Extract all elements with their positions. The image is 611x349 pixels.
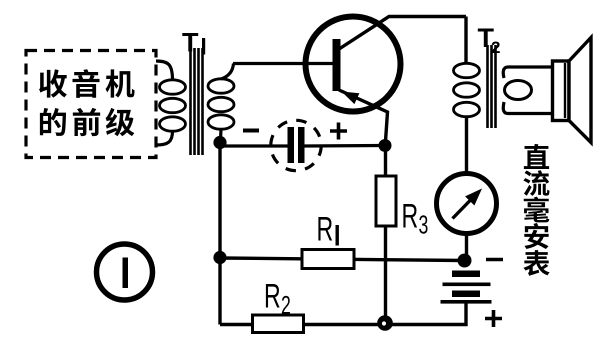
wire battery to bottom rail (385, 304, 466, 325)
transformer T1 primary coil (160, 80, 186, 131)
capacitor C1 wire right (305, 144, 386, 148)
battery B1 plates (452, 271, 480, 278)
wire box to T1 primary top (156, 61, 173, 80)
capacitor polarity minus (243, 129, 259, 133)
transformer T1 secondary coil (208, 79, 234, 129)
svg-text:R: R (402, 198, 419, 235)
speaker horn (569, 38, 591, 143)
resistor R1 body (302, 250, 354, 269)
wire R1 rail (220, 258, 465, 261)
svg-text:T: T (182, 28, 199, 58)
resistor R3 body (376, 176, 396, 226)
battery minus sign (486, 258, 503, 262)
meter M1 circle (437, 174, 497, 234)
node D junction dot (battery minus) (458, 254, 472, 268)
wire bottom rail (220, 323, 385, 326)
text char 流 (523, 170, 549, 196)
meter M1 needle (453, 199, 473, 219)
transistor Q1 emitter arrow (PNP) (342, 92, 360, 105)
text char 毫 (524, 197, 550, 223)
node A junction dot (213, 136, 226, 149)
wire meter to battery node (465, 234, 468, 258)
text char 收 (39, 69, 67, 97)
text char 前 (73, 108, 100, 136)
text char 机 (106, 69, 135, 97)
svg-text:2: 2 (491, 38, 500, 57)
text char 直 (524, 144, 549, 169)
text char 级 (106, 108, 135, 136)
svg-text:R: R (264, 278, 281, 315)
text char 的 (40, 108, 66, 136)
text char 表 (523, 250, 549, 276)
node E junction dot (R3/bottom rail) (377, 315, 393, 331)
node C junction dot (emitter/cap/R3) (379, 139, 392, 152)
transistor Q1 collector wire (336, 17, 466, 52)
transformer T1 core (191, 48, 203, 155)
capacitor polarity plus (330, 123, 347, 140)
transformer T2 core (488, 45, 496, 128)
svg-text:2: 2 (281, 291, 291, 320)
wire T1 secondary top to base (node B) (221, 64, 334, 80)
battery plus sign (485, 310, 502, 327)
transistor Q1 base bar (333, 39, 341, 91)
wire box to T1 primary bottom (156, 131, 173, 145)
wire T2 primary bottom to meter (465, 117, 468, 177)
dashed block: radio front stage box (26, 51, 156, 158)
text char 安 (524, 223, 548, 249)
resistor R2 body (253, 315, 304, 333)
capacitor C1 plates (288, 127, 295, 163)
transistor Q1 emitter wire (339, 90, 388, 146)
wire T2 top feed (464, 17, 467, 65)
capacitor C1 dashed highlight circle (271, 120, 321, 170)
transformer T2 primary coil (454, 63, 480, 116)
transformer T2 secondary coil and leads (503, 67, 553, 114)
svg-text:R: R (317, 211, 334, 248)
capacitor C1 wire left (220, 144, 288, 147)
wire T1 secondary bottom to node A (219, 129, 223, 140)
text char 音 (73, 69, 100, 98)
wire left vertical rail (218, 143, 221, 325)
resistor R3 vertical wire (384, 146, 387, 323)
node B2 junction dot (left rail / R1) (213, 251, 226, 264)
svg-text:3: 3 (419, 210, 429, 239)
figure number circle 1 (97, 244, 153, 300)
speaker driver (553, 61, 570, 121)
transistor Q1 circle (306, 17, 401, 112)
